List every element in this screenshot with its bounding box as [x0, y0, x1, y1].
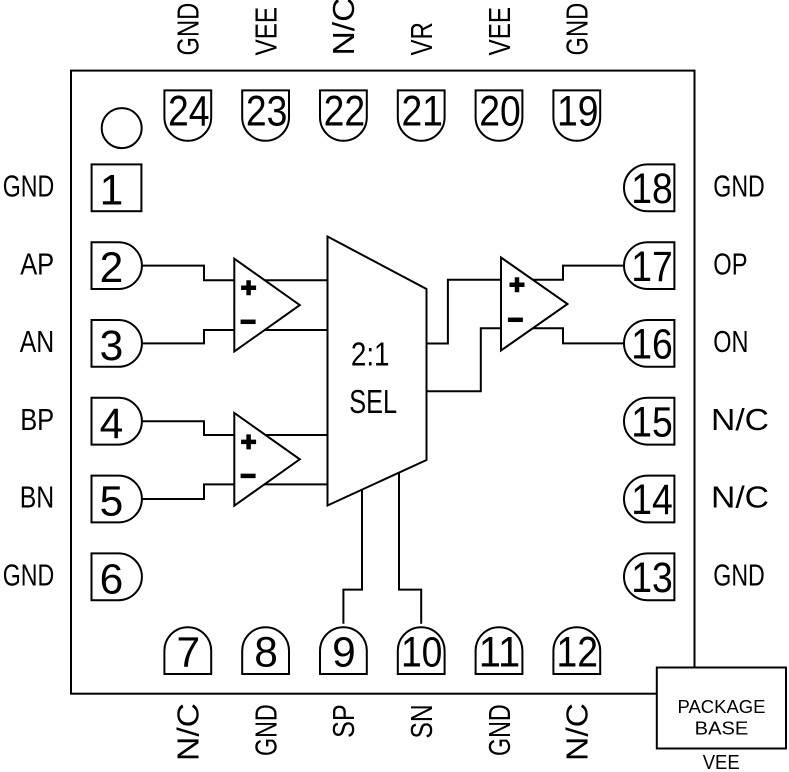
svg-text:14: 14	[631, 477, 673, 524]
svg-text:N/C: N/C	[711, 402, 769, 437]
svg-text:GND: GND	[713, 169, 765, 204]
pin 20 (top)	[476, 90, 523, 140]
pin 5 (left)	[92, 476, 142, 523]
svg-text:17: 17	[631, 244, 673, 291]
svg-text:9: 9	[332, 630, 356, 677]
op-amp A plus sign	[241, 280, 256, 295]
wire mux select SP to pin9	[343, 490, 362, 624]
pin 17 (right)	[624, 242, 674, 289]
svg-text:BP: BP	[20, 402, 54, 437]
op-amp B (input buffer, pins 4/5)	[234, 413, 299, 506]
wire op-amp C - output to pin16 ON	[533, 328, 624, 343]
op-amp A (input buffer, pins 2/3)	[234, 259, 299, 352]
wire mux output 1 to op-amp C + input	[427, 280, 502, 344]
op-amp A minus sign	[241, 320, 256, 325]
pin 9 (bottom)	[320, 627, 367, 674]
wire pin2 AP to op-amp A + input	[142, 266, 234, 281]
svg-text:GND: GND	[482, 704, 517, 756]
pin 24 (top)	[164, 90, 211, 140]
svg-text:23: 23	[246, 89, 288, 136]
pin 4 (left)	[92, 398, 142, 445]
svg-text:12: 12	[557, 630, 599, 677]
svg-text:24: 24	[168, 89, 210, 136]
svg-text:5: 5	[100, 479, 124, 526]
svg-text:3: 3	[100, 323, 124, 370]
svg-text:19: 19	[557, 89, 599, 136]
svg-text:2: 2	[100, 245, 124, 292]
svg-text:VEE: VEE	[248, 7, 283, 56]
pin 14 (right)	[624, 476, 674, 523]
svg-text:4: 4	[100, 401, 124, 448]
svg-text:N/C: N/C	[560, 703, 595, 761]
svg-text:SN: SN	[404, 704, 439, 738]
pin 6 (left)	[92, 553, 142, 600]
svg-text:VEE: VEE	[482, 7, 517, 56]
svg-text:BASE: BASE	[695, 718, 749, 739]
pin-1 indicator circle	[102, 108, 142, 148]
svg-text:BN: BN	[20, 480, 55, 515]
svg-text:16: 16	[631, 322, 673, 369]
wire op-amp A - output to mux	[265, 329, 328, 331]
svg-text:SEL: SEL	[349, 384, 397, 421]
pin 21 (top)	[398, 90, 445, 140]
op-amp C (output buffer, pins 16/17)	[501, 258, 568, 351]
svg-text:8: 8	[254, 630, 278, 677]
svg-text:SP: SP	[326, 704, 361, 738]
wire op-amp A + output to mux	[264, 279, 327, 281]
svg-text:10: 10	[401, 630, 443, 677]
svg-text:6: 6	[100, 556, 124, 603]
pin 23 (top)	[242, 90, 289, 140]
op-amp C plus sign	[510, 277, 525, 292]
svg-text:GND: GND	[248, 704, 283, 756]
mux U1 2:1 SEL	[328, 237, 427, 506]
pin 3 (left)	[92, 320, 142, 367]
package base box	[657, 668, 786, 749]
pin 8 (bottom)	[242, 627, 289, 674]
svg-text:N/C: N/C	[326, 0, 361, 56]
pin 22 (top)	[320, 90, 367, 140]
pin 19 (top)	[553, 90, 600, 140]
svg-text:18: 18	[631, 166, 673, 213]
svg-text:PACKAGE: PACKAGE	[678, 696, 766, 717]
svg-text:1: 1	[100, 167, 124, 214]
svg-text:VEE: VEE	[703, 752, 740, 772]
svg-text:N/C: N/C	[171, 703, 206, 761]
pin 2 (left)	[92, 242, 142, 289]
wire op-amp B + output to mux	[266, 434, 328, 436]
wire op-amp B - output to mux	[264, 483, 327, 485]
svg-text:GND: GND	[560, 3, 595, 56]
svg-text:11: 11	[479, 630, 521, 677]
svg-text:AP: AP	[20, 246, 54, 281]
pin 12 (bottom)	[553, 627, 600, 674]
svg-text:2:1: 2:1	[351, 337, 390, 374]
pin 16 (right)	[624, 320, 674, 367]
op-amp C minus sign	[508, 318, 523, 323]
pin 11 (bottom)	[476, 627, 523, 674]
wire pin4 BP to op-amp B + input	[142, 421, 234, 435]
wire mux select SN to pin10	[399, 473, 421, 624]
svg-text:13: 13	[631, 555, 673, 602]
package outline	[71, 71, 695, 694]
wire pin3 AN to op-amp A - input	[142, 330, 234, 343]
pin 15 (right)	[624, 398, 674, 445]
svg-text:N/C: N/C	[711, 480, 769, 515]
pin 18 (right)	[624, 164, 674, 211]
wire pin5 BN to op-amp B - input	[142, 484, 234, 499]
svg-text:22: 22	[324, 89, 366, 136]
svg-text:21: 21	[401, 89, 443, 136]
svg-text:GND: GND	[171, 3, 206, 56]
pin 10 (bottom)	[398, 627, 445, 674]
op-amp B minus sign	[241, 474, 256, 479]
svg-text:AN: AN	[20, 324, 55, 359]
svg-text:ON: ON	[713, 324, 748, 359]
pin 1 (left, square)	[92, 164, 142, 211]
svg-text:OP: OP	[713, 246, 747, 281]
wire mux output 2 to op-amp C - input	[427, 328, 502, 391]
svg-text:20: 20	[479, 89, 521, 136]
pin 13 (right)	[624, 553, 674, 600]
svg-text:GND: GND	[713, 558, 765, 593]
op-amp B plus sign	[241, 434, 256, 449]
wire op-amp C + output to pin17 OP	[533, 266, 624, 280]
svg-text:VR: VR	[404, 22, 439, 55]
svg-text:7: 7	[176, 630, 200, 677]
svg-text:GND: GND	[3, 558, 55, 593]
pin 7 (bottom)	[164, 627, 211, 674]
svg-text:15: 15	[631, 399, 673, 446]
svg-text:GND: GND	[3, 169, 55, 204]
